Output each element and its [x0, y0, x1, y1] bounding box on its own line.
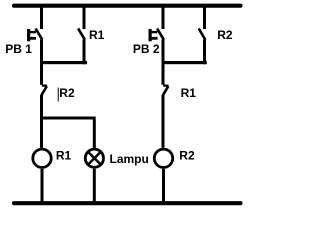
contact R1 NO blade	[78, 28, 85, 39]
wire: rail to contact R2 (hold)	[203, 8, 206, 30]
contact R1 NC blade	[163, 86, 168, 95]
svg-text:R2: R2	[179, 148, 195, 162]
wire: rail to contact R1 (hold)	[83, 8, 86, 30]
svg-text:Lampu: Lampu	[110, 152, 149, 166]
wire: coil R1 to bottom rail	[41, 169, 44, 201]
tee line to lamp branch	[40, 117, 96, 120]
wire: contact R1 to left junction bar	[83, 40, 86, 65]
wire: NC R2 to tee	[40, 95, 43, 117]
contact R2 NC tick	[42, 84, 47, 87]
contact R2 NO blade	[199, 29, 206, 40]
wire: PB2 to right junction bar	[162, 40, 165, 63]
wire: rail to PB1 contact	[40, 8, 43, 30]
svg-text:R2: R2	[217, 28, 233, 42]
svg-text:R1: R1	[56, 148, 72, 162]
wire: NC R1 to coil R2	[162, 95, 165, 148]
wire: lamp to bottom rail	[93, 169, 96, 202]
right junction bar	[162, 61, 207, 64]
top supply rail	[14, 4, 241, 8]
pushbutton PB2 actuator cap	[149, 29, 158, 41]
svg-text:R1: R1	[89, 28, 105, 42]
left junction bar	[40, 61, 87, 64]
pushbutton PB1 (NO contact blade)	[36, 29, 43, 40]
bottom supply rail	[14, 201, 241, 205]
wire: junction to NC contact R2	[40, 64, 43, 85]
contact R2 NC blade	[41, 86, 46, 95]
svg-text:PB 2: PB 2	[133, 42, 160, 56]
coil R2	[154, 149, 172, 167]
wire: tee to lamp	[93, 120, 96, 148]
wire: right junction to NC contact R1	[162, 64, 165, 85]
wire: rail to PB2 contact	[162, 8, 165, 30]
caret before label R2	[58, 88, 59, 102]
wire: contact R2 to right junction bar	[203, 40, 206, 65]
svg-text:R1: R1	[181, 86, 197, 100]
pushbutton PB2 (NO contact blade)	[157, 29, 164, 40]
lamp (circle with X)	[85, 149, 103, 167]
svg-text:R2: R2	[59, 86, 75, 100]
wire: PB1 to left junction bar	[40, 40, 43, 63]
coil R1	[33, 149, 51, 167]
svg-text:PB 1: PB 1	[5, 42, 32, 56]
contact R1 NC tick	[163, 84, 168, 87]
wire: coil R2 to bottom rail	[162, 169, 165, 201]
wire: tee to coil R1	[40, 120, 43, 148]
pushbutton PB1 actuator cap	[27, 29, 36, 41]
